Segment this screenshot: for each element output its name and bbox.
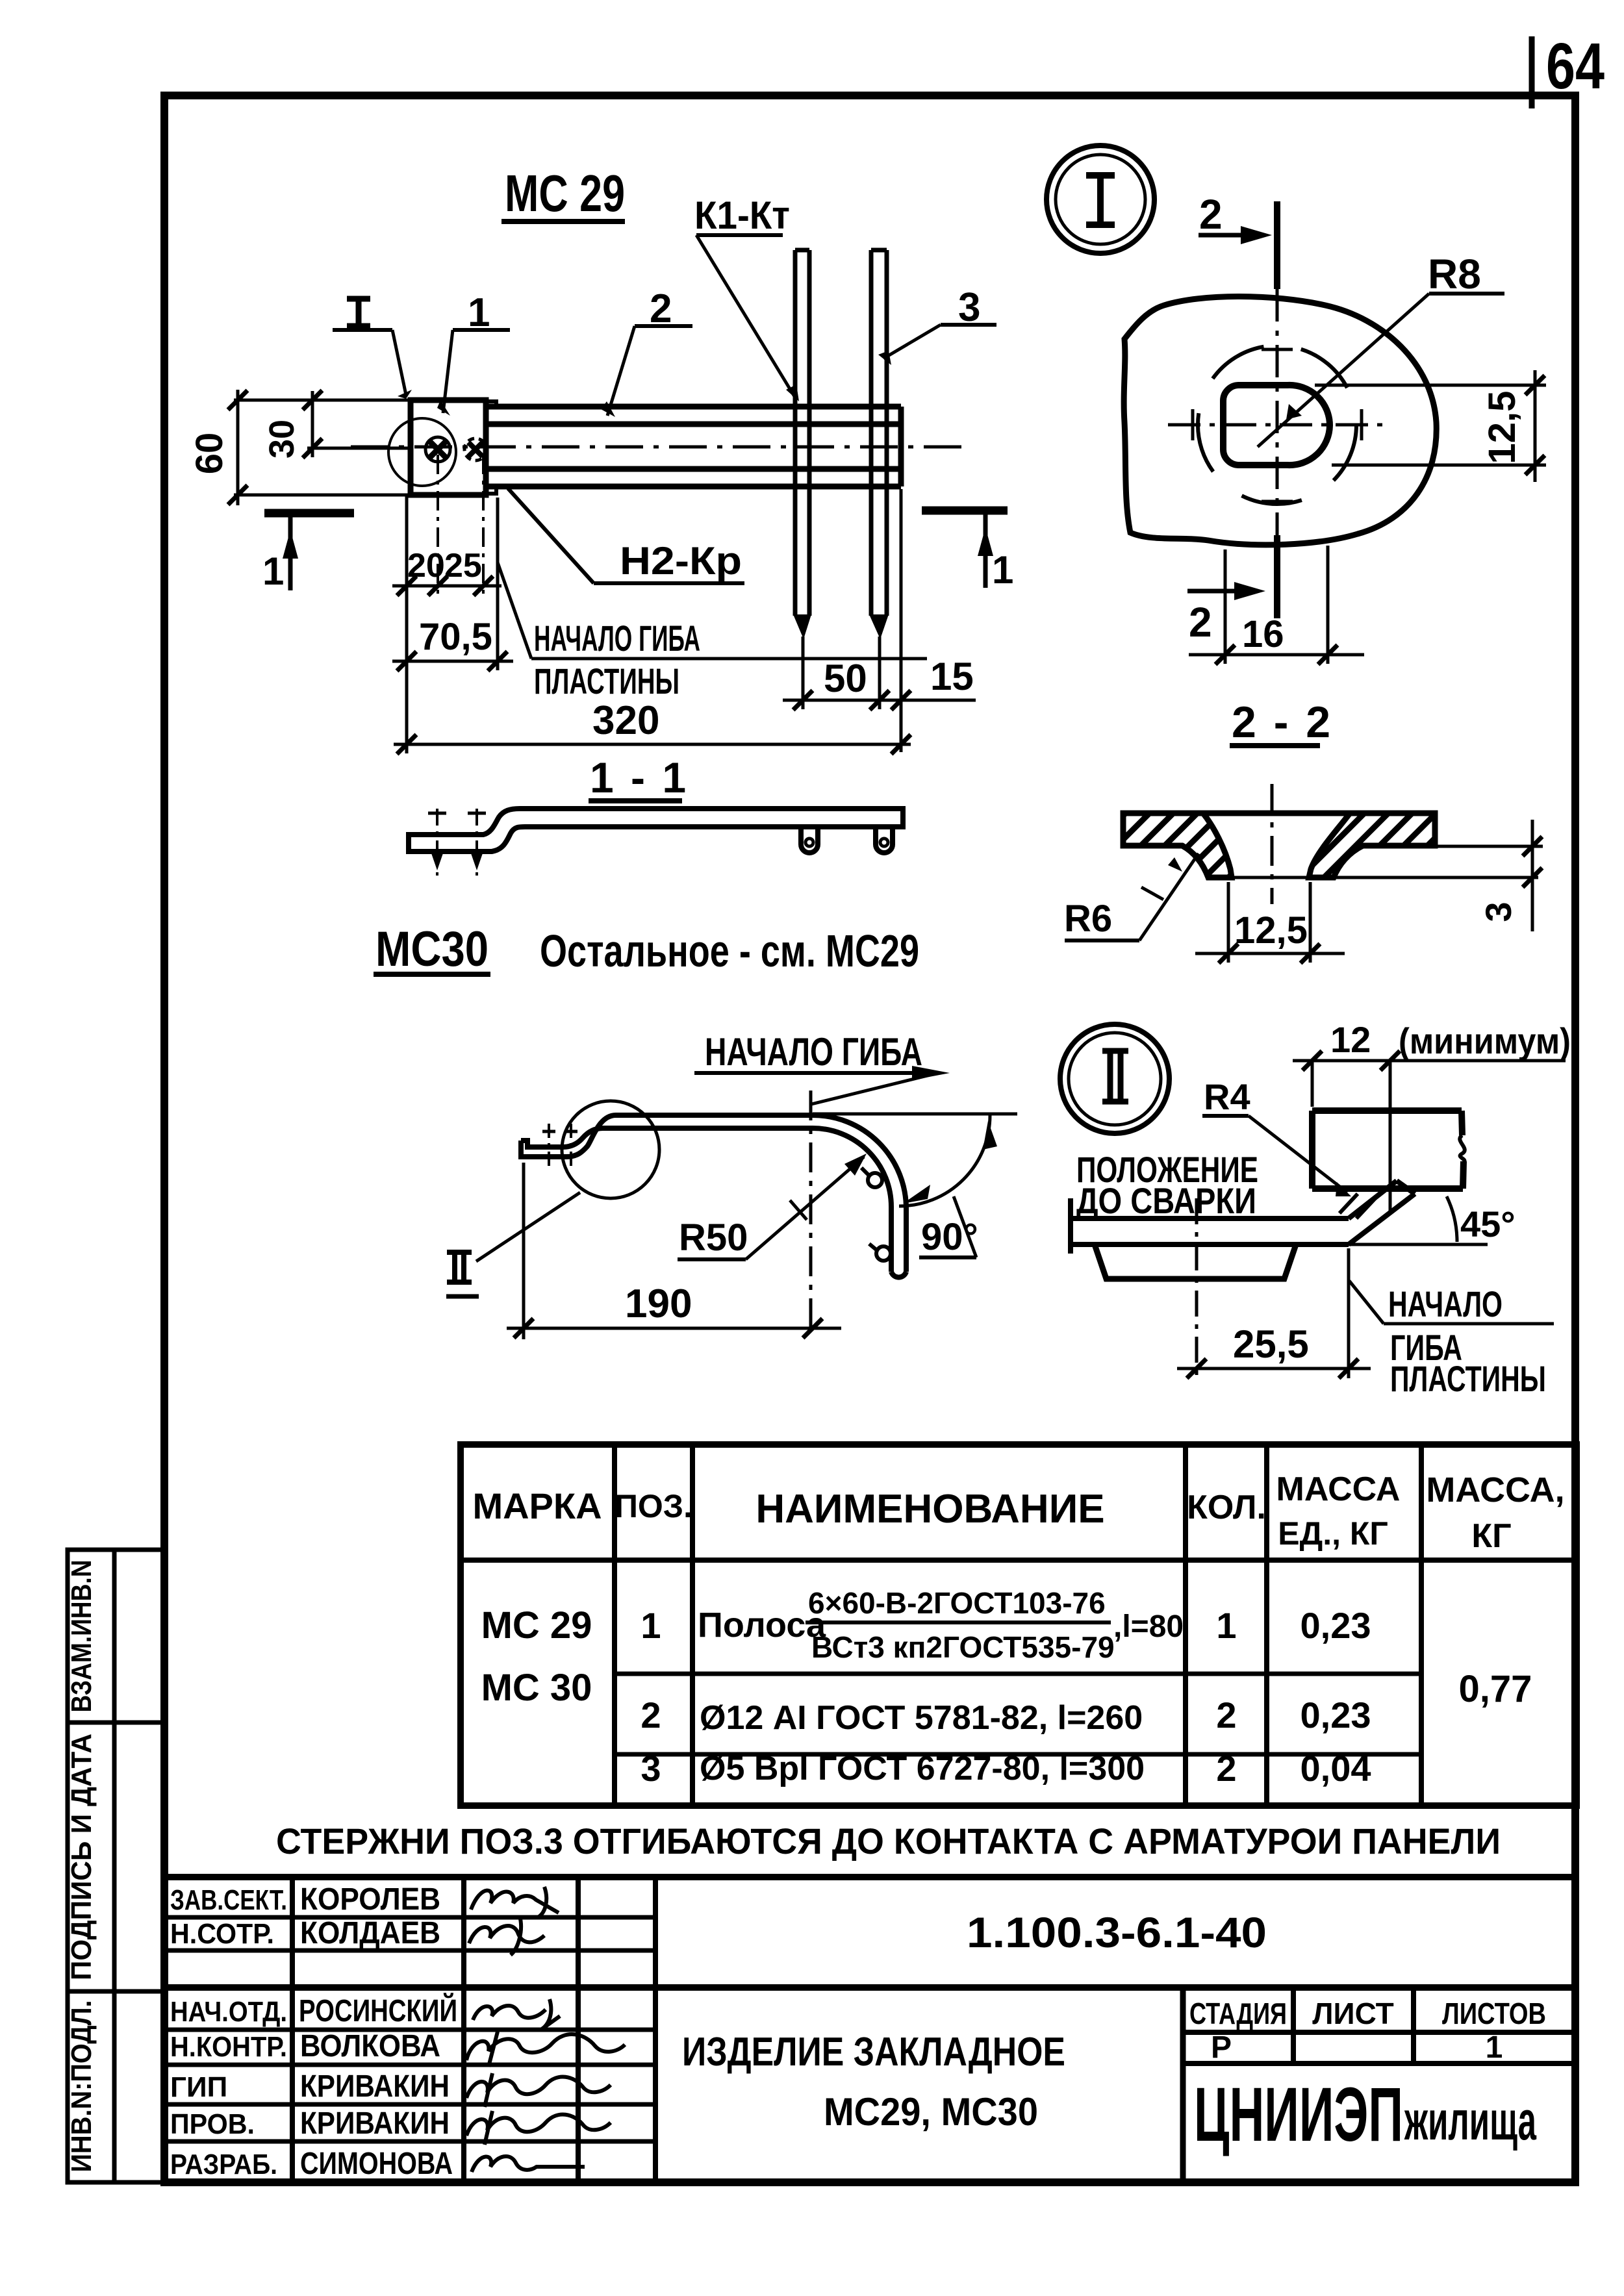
svg-text:ЗАВ.СЕКТ.: ЗАВ.СЕКТ. <box>170 1884 287 1916</box>
svg-text:НАЧАЛО ГИБА: НАЧАЛО ГИБА <box>705 1030 922 1074</box>
svg-text:КРИВАКИН: КРИВАКИН <box>300 2106 450 2141</box>
svg-text:СТАДИЯ: СТАДИЯ <box>1189 1997 1287 2030</box>
svg-text:2: 2 <box>1216 1748 1236 1789</box>
svg-text:ВСт3 кп2ГОСТ535-79: ВСт3 кп2ГОСТ535-79 <box>811 1630 1115 1664</box>
svg-text:1: 1 <box>641 1605 661 1646</box>
svg-text:3: 3 <box>1478 902 1519 922</box>
svg-text:25,5: 25,5 <box>1233 1322 1309 1366</box>
svg-text:НАЧ.ОТД.: НАЧ.ОТД. <box>170 1996 287 2028</box>
svg-text:16: 16 <box>1242 613 1284 655</box>
svg-text:СИМОНОВА: СИМОНОВА <box>300 2147 453 2181</box>
svg-text:МС 29: МС 29 <box>481 1604 592 1646</box>
svg-text:64: 64 <box>1546 30 1605 103</box>
svg-text:R8: R8 <box>1428 251 1481 297</box>
svg-text:45°: 45° <box>1460 1204 1516 1244</box>
svg-text:МС29, МС30: МС29, МС30 <box>824 2090 1038 2134</box>
svg-text:20: 20 <box>407 547 445 585</box>
svg-text:2 - 2: 2 - 2 <box>1232 698 1333 747</box>
svg-text:ЛИСТОВ: ЛИСТОВ <box>1442 1997 1546 2030</box>
svg-text:КРИВАКИН: КРИВАКИН <box>300 2069 450 2104</box>
svg-text:1 - 1: 1 - 1 <box>590 753 689 801</box>
svg-text:ИНВ.N:ПОДЛ.: ИНВ.N:ПОДЛ. <box>66 2000 97 2173</box>
svg-text:Р: Р <box>1211 2030 1232 2065</box>
svg-text:МС 30: МС 30 <box>481 1667 592 1709</box>
svg-text:3: 3 <box>641 1748 661 1789</box>
svg-text:МАРКА: МАРКА <box>472 1485 602 1526</box>
svg-text:ЛИСТ: ЛИСТ <box>1312 1997 1394 2030</box>
svg-text:РАЗРАБ.: РАЗРАБ. <box>170 2149 277 2180</box>
svg-text:60: 60 <box>188 433 231 475</box>
svg-text:12,5: 12,5 <box>1234 909 1308 952</box>
svg-text:30: 30 <box>262 420 301 459</box>
svg-text:R4: R4 <box>1204 1076 1250 1117</box>
svg-text:РОСИНСКИЙ: РОСИНСКИЙ <box>299 1993 457 2028</box>
svg-text:1: 1 <box>992 548 1013 592</box>
svg-text:50: 50 <box>824 657 867 700</box>
svg-text:ГИП: ГИП <box>170 2071 227 2103</box>
svg-text:Ø12 АI ГОСТ 5781-82, l=260: Ø12 АI ГОСТ 5781-82, l=260 <box>700 1699 1143 1737</box>
svg-text:ВЗАМ.ИНВ.N: ВЗАМ.ИНВ.N <box>66 1560 97 1713</box>
svg-text:70,5: 70,5 <box>419 616 492 658</box>
svg-text:2: 2 <box>1216 1695 1236 1735</box>
svg-text:1.100.3-6.1-40: 1.100.3-6.1-40 <box>967 1908 1267 1956</box>
svg-text:КОРОЛЕВ: КОРОЛЕВ <box>300 1882 440 1917</box>
svg-text:ПЛАСТИНЫ: ПЛАСТИНЫ <box>1390 1358 1546 1399</box>
svg-text:320: 320 <box>592 698 659 743</box>
svg-text:R50: R50 <box>679 1217 748 1259</box>
svg-text:25: 25 <box>444 547 482 585</box>
svg-text:ЦНИИЭП: ЦНИИЭП <box>1194 2072 1403 2158</box>
svg-text:КОЛ.: КОЛ. <box>1187 1489 1266 1526</box>
svg-text:Остальное - см. МС29: Остальное - см. МС29 <box>540 926 919 976</box>
svg-text:ВОЛКОВА: ВОЛКОВА <box>300 2029 440 2063</box>
svg-text:2: 2 <box>641 1695 661 1735</box>
svg-text:КОЛДАЕВ: КОЛДАЕВ <box>300 1916 440 1950</box>
svg-text:МАССА: МАССА <box>1276 1470 1401 1508</box>
svg-text:ДО СВАРКИ: ДО СВАРКИ <box>1076 1180 1256 1221</box>
svg-text:КГ: КГ <box>1471 1517 1511 1555</box>
svg-text:0,77: 0,77 <box>1459 1668 1532 1710</box>
svg-text:К1-Кт: К1-Кт <box>694 194 790 237</box>
svg-text:Ø5 ВрI ГОСТ 6727-80, l=300: Ø5 ВрI ГОСТ 6727-80, l=300 <box>700 1750 1145 1787</box>
svg-text:Н.СОТР.: Н.СОТР. <box>170 1918 274 1950</box>
svg-text:ИЗДЕЛИЕ ЗАКЛАДНОЕ: ИЗДЕЛИЕ ЗАКЛАДНОЕ <box>682 2030 1065 2075</box>
svg-text:ПЛАСТИНЫ: ПЛАСТИНЫ <box>534 661 679 701</box>
svg-text:НАИМЕНОВАНИЕ: НАИМЕНОВАНИЕ <box>755 1487 1104 1532</box>
svg-text:(минимум): (минимум) <box>1399 1020 1571 1061</box>
svg-text:0,04: 0,04 <box>1300 1748 1371 1789</box>
svg-text:,l=80: ,l=80 <box>1113 1609 1184 1644</box>
svg-text:6×60-В-2ГОСТ103-76: 6×60-В-2ГОСТ103-76 <box>808 1586 1106 1620</box>
svg-text:МС30: МС30 <box>375 922 488 977</box>
svg-text:1: 1 <box>262 549 284 593</box>
svg-text:R6: R6 <box>1064 898 1112 940</box>
svg-text:15: 15 <box>930 655 974 698</box>
svg-text:2: 2 <box>1189 599 1212 646</box>
svg-text:190: 190 <box>625 1281 692 1326</box>
svg-text:жилища: жилища <box>1404 2090 1536 2151</box>
svg-text:Н.КОНТР.: Н.КОНТР. <box>170 2031 287 2063</box>
svg-text:0,23: 0,23 <box>1300 1695 1371 1735</box>
svg-text:ПРОВ.: ПРОВ. <box>170 2108 255 2140</box>
svg-text:МС 29: МС 29 <box>505 164 625 222</box>
svg-text:12: 12 <box>1330 1019 1371 1060</box>
svg-text:1: 1 <box>1486 2030 1503 2065</box>
svg-text:ПОЗ.: ПОЗ. <box>615 1488 692 1524</box>
svg-text:СТЕРЖНИ ПОЗ.3 ОТГИБАЮТСЯ ДО КО: СТЕРЖНИ ПОЗ.3 ОТГИБАЮТСЯ ДО КОНТАКТА С А… <box>276 1821 1501 1861</box>
svg-text:2: 2 <box>1199 191 1223 238</box>
svg-text:12,5: 12,5 <box>1481 391 1523 464</box>
svg-text:НАЧАЛО: НАЧАЛО <box>1388 1283 1503 1324</box>
svg-text:1: 1 <box>1216 1605 1236 1646</box>
svg-text:Полоса: Полоса <box>698 1606 826 1645</box>
svg-text:ПОДПИСЬ И ДАТА: ПОДПИСЬ И ДАТА <box>66 1734 97 1980</box>
svg-text:Н2-Кр: Н2-Кр <box>620 539 742 583</box>
svg-text:НАЧАЛО ГИБА: НАЧАЛО ГИБА <box>534 618 700 659</box>
svg-text:ЕД., КГ: ЕД., КГ <box>1278 1515 1388 1552</box>
svg-text:0,23: 0,23 <box>1300 1605 1371 1646</box>
svg-text:МАССА,: МАССА, <box>1426 1470 1564 1509</box>
